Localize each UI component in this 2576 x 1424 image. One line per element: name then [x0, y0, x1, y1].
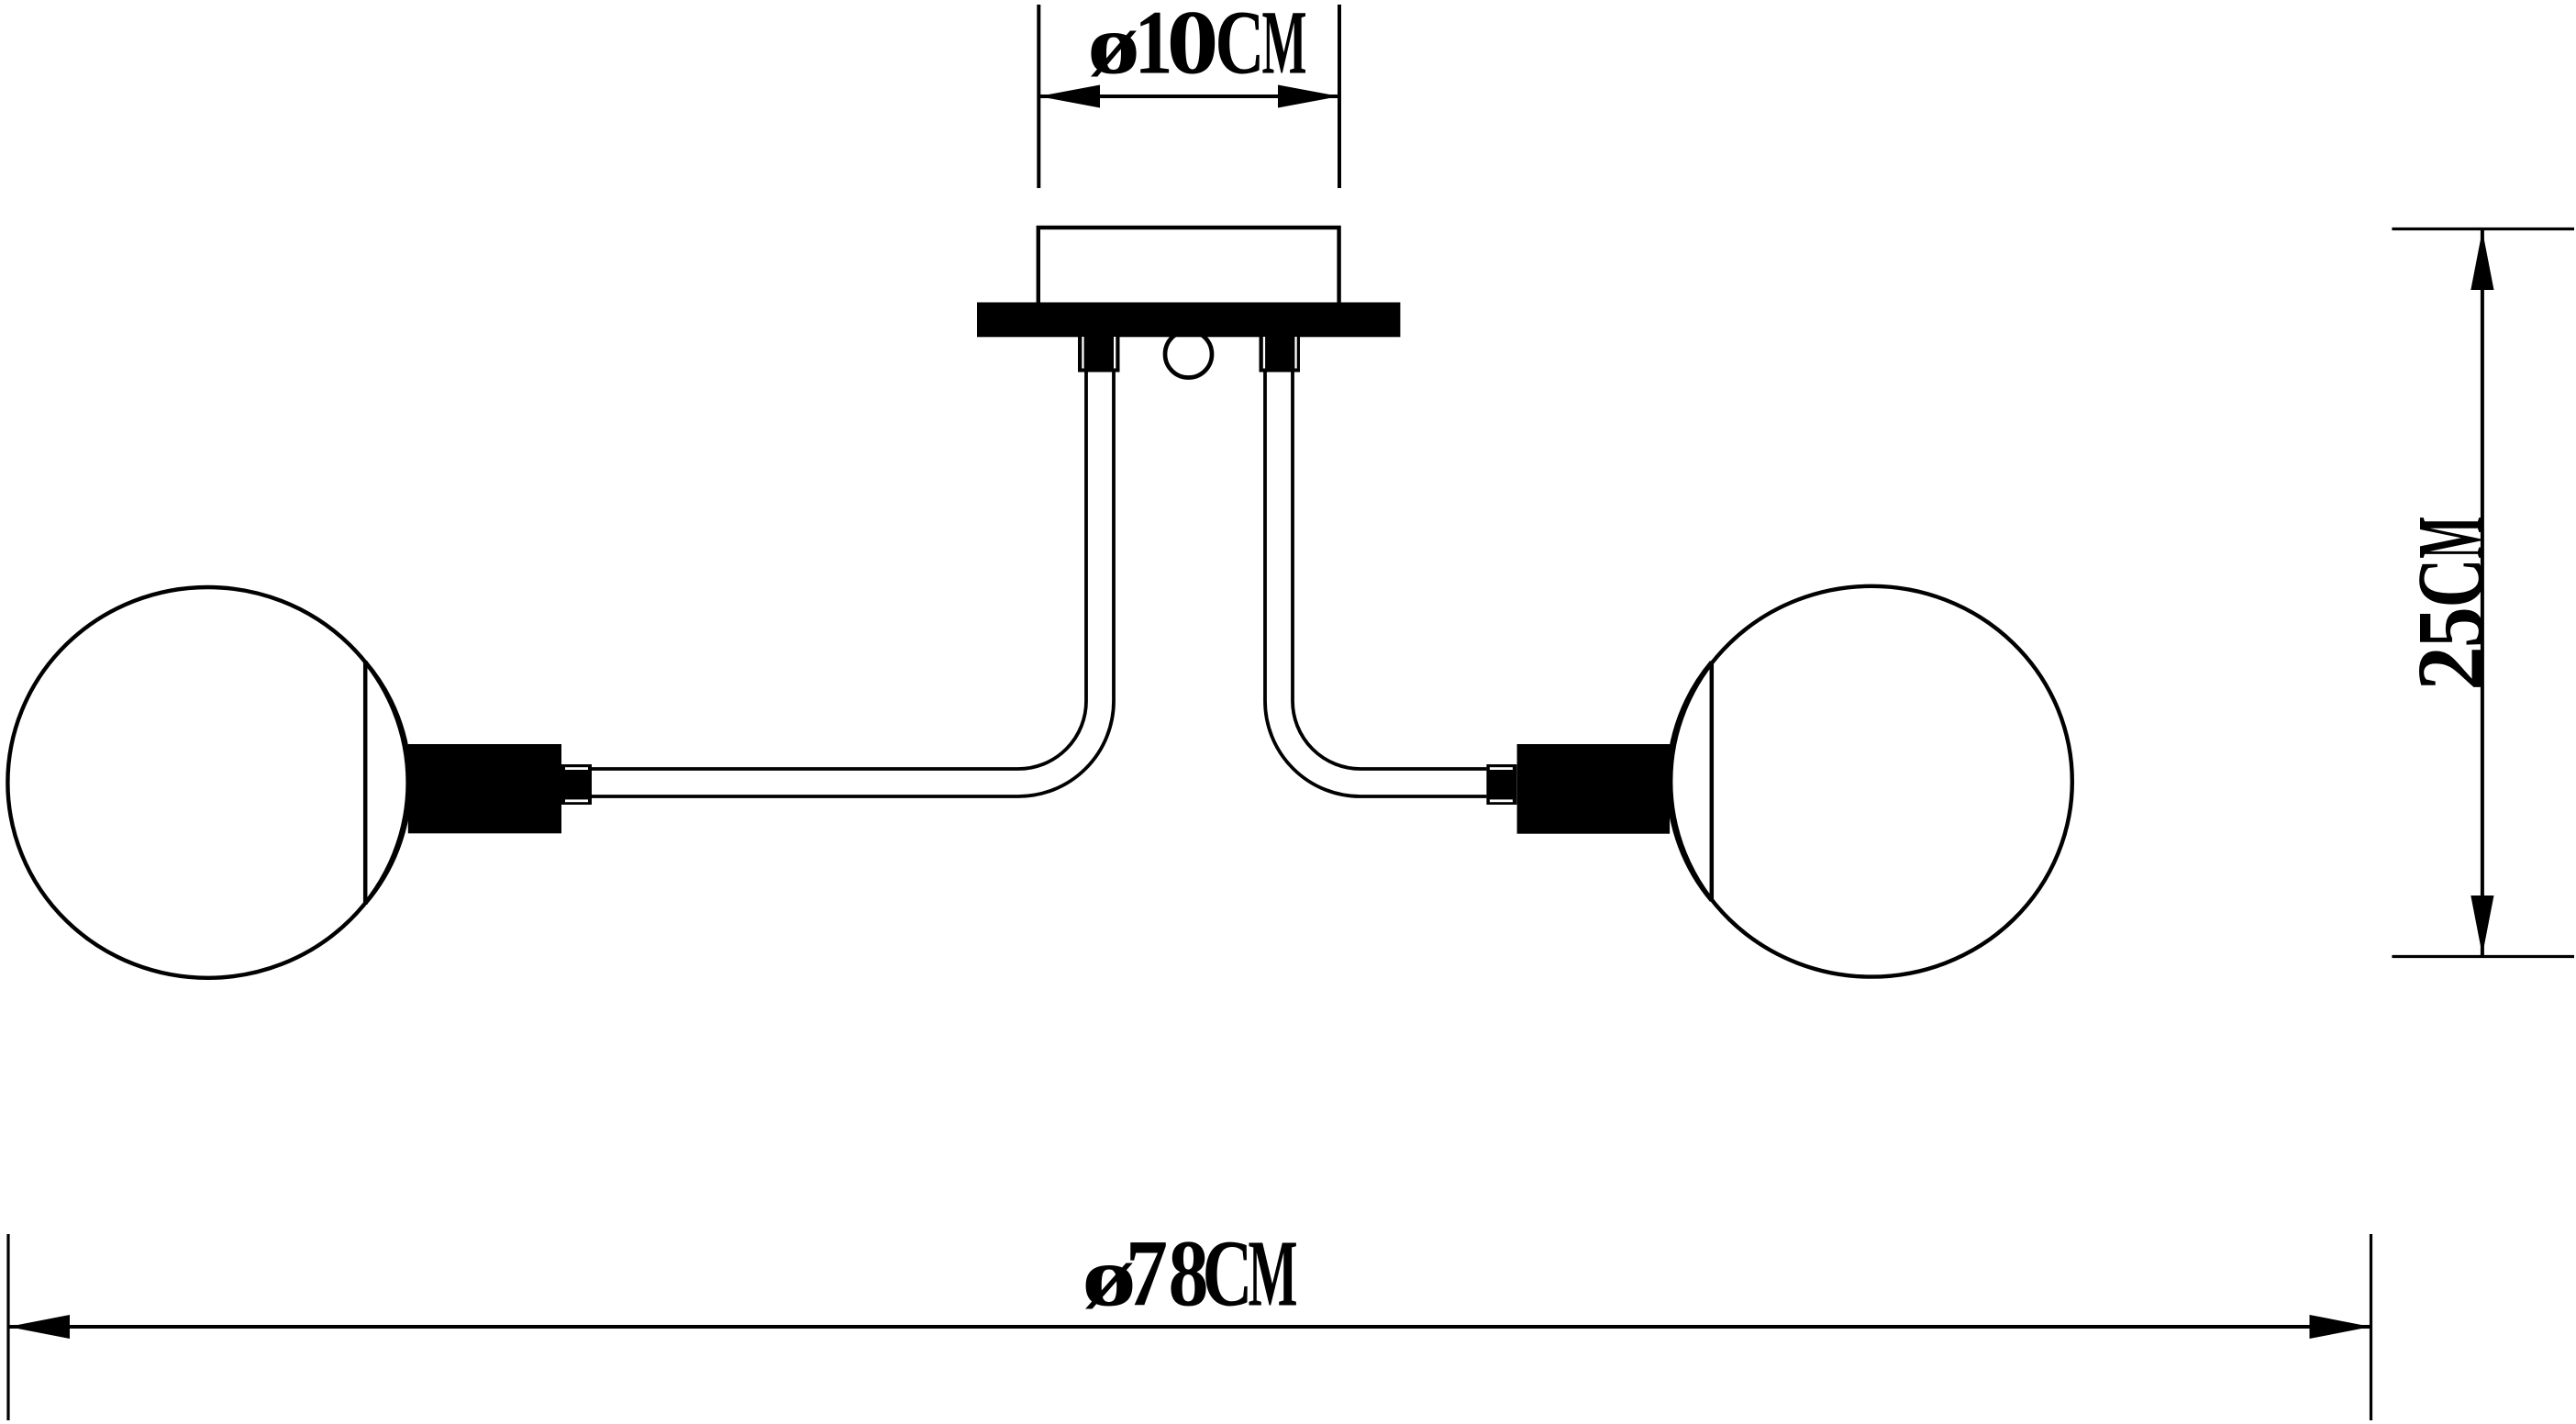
left lamp socket [408, 744, 561, 833]
right socket collar [1486, 764, 1516, 805]
svg-text:5: 5 [2398, 606, 2504, 648]
svg-text:M: M [1249, 1221, 1298, 1327]
right lamp neck chord [1710, 662, 1715, 901]
left socket collar white gap top [565, 767, 588, 770]
dimension D3 ø78CM: left arrowhead [8, 1315, 70, 1339]
dimension D2 25CM: bottom extension line [2392, 955, 2574, 958]
left arm tube inner line (top/left) [592, 373, 1087, 770]
left ceiling stub white slit left [1082, 337, 1083, 369]
dimension D3 ø78CM: right extension line [2370, 1234, 2372, 1420]
dimension D1 ø10CM: left extension line [1037, 5, 1040, 188]
dimension D2 label 25CM (rotated) [2398, 517, 2504, 691]
right glass globe [1671, 586, 2072, 977]
dimension D2 25CM: top extension line [2392, 228, 2574, 230]
dimension D1 ø10CM: right extension line [1338, 5, 1341, 188]
mounting hole circle [1165, 331, 1212, 378]
left ceiling stub white slit right [1114, 337, 1116, 369]
canopy cup [1038, 228, 1339, 306]
right ceiling stub white slit right [1294, 337, 1296, 369]
left glass globe [7, 587, 407, 978]
right lamp socket [1517, 744, 1671, 834]
svg-text:C: C [2398, 558, 2504, 607]
right lamp neck arc [1668, 662, 1711, 901]
right ceiling stub [1260, 337, 1301, 373]
dimension D3 label ø78CM [1082, 1221, 1298, 1327]
ceiling plate bar [977, 303, 1400, 338]
left arm tube outer line (bottom/right) [592, 373, 1115, 797]
dimension D1 ø10CM: dimension line [1038, 95, 1339, 98]
dimension D1 label ø10CM [1087, 0, 1307, 94]
dimension D3 ø78CM: left extension line [6, 1234, 9, 1420]
right arm tube outer line (bottom/left) [1265, 373, 1486, 797]
dimension D2 25CM: top arrowhead [2471, 230, 2493, 290]
dimension D1 ø10CM: right arrowhead [1278, 85, 1339, 108]
left socket collar white gap bottom [565, 799, 588, 802]
right arm tube inner line (top/right) [1293, 373, 1486, 770]
left lamp neck chord [363, 661, 368, 905]
dimension D2 25CM: bottom arrowhead [2471, 896, 2493, 955]
left lamp neck arc [365, 662, 410, 904]
svg-text:C: C [1216, 0, 1265, 94]
svg-text:0: 0 [1167, 0, 1219, 94]
svg-text:M: M [1262, 0, 1307, 94]
svg-text:M: M [2398, 517, 2504, 559]
left ceiling stub [1078, 337, 1120, 373]
dimension D2 25CM: dimension line [2481, 229, 2484, 957]
left socket collar [561, 764, 592, 805]
svg-text:ø: ø [1087, 0, 1140, 92]
dimension D3 ø78CM: dimension line [8, 1325, 2371, 1329]
right socket collar white gap top [1490, 767, 1513, 770]
right ceiling stub white slit left [1263, 337, 1265, 369]
dimension D1 ø10CM: left arrowhead [1038, 85, 1100, 108]
right socket collar white gap bottom [1490, 799, 1513, 802]
svg-text:7: 7 [1126, 1221, 1168, 1327]
svg-text:2: 2 [2398, 646, 2504, 691]
dimension D3 ø78CM: right arrowhead [2310, 1315, 2371, 1339]
svg-text:C: C [1203, 1221, 1253, 1327]
